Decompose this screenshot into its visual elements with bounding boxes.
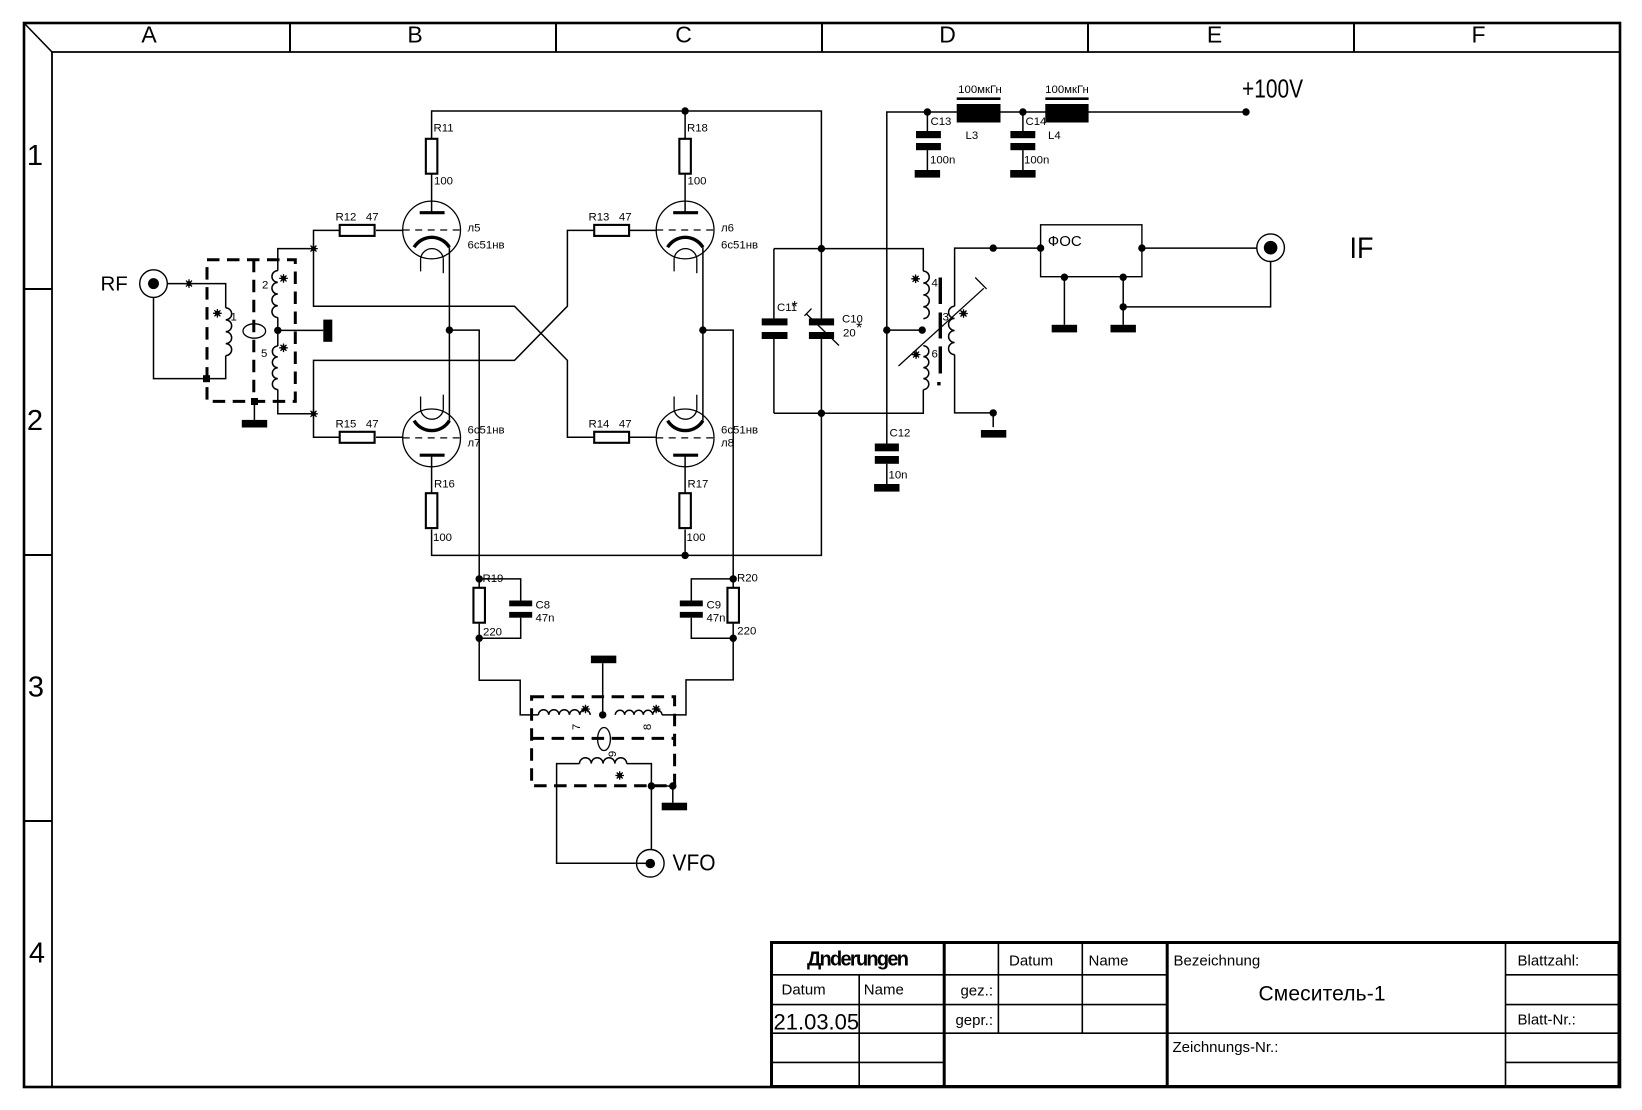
svg-text:100n: 100n (1024, 155, 1049, 167)
svg-text:Datum: Datum (1009, 953, 1053, 970)
svg-text:2: 2 (27, 405, 43, 437)
svg-text:Name: Name (864, 982, 904, 999)
svg-text:100мкГн: 100мкГн (1045, 84, 1089, 96)
svg-text:VFO: VFO (673, 849, 716, 875)
svg-text:RF: RF (101, 273, 128, 296)
svg-text:D: D (939, 22, 956, 48)
svg-text:C9: C9 (707, 600, 722, 612)
svg-text:л6: л6 (721, 223, 734, 235)
svg-text:C12: C12 (890, 428, 911, 440)
svg-text:R18: R18 (687, 123, 708, 135)
svg-text:100мкГн: 100мкГн (958, 84, 1002, 96)
svg-text:2: 2 (262, 280, 268, 292)
svg-text:100: 100 (433, 532, 452, 544)
svg-text:L4: L4 (1048, 130, 1061, 142)
svg-text:100n: 100n (930, 155, 955, 167)
svg-text:6с51нв: 6с51нв (721, 239, 758, 251)
svg-text:6с51нв: 6с51нв (721, 425, 758, 437)
svg-text:E: E (1207, 22, 1222, 48)
svg-text:gez.:: gez.: (960, 983, 993, 1000)
svg-text:Bezeichnung: Bezeichnung (1174, 953, 1261, 970)
svg-text:6: 6 (932, 349, 938, 361)
svg-text:47n: 47n (536, 612, 555, 624)
svg-text:л5: л5 (468, 223, 481, 235)
svg-text:R12 47: R12 47 (336, 212, 379, 224)
svg-text:R20: R20 (737, 573, 758, 585)
svg-text:Blatt-Nr.:: Blatt-Nr.: (1518, 1012, 1576, 1029)
svg-text:100: 100 (687, 532, 706, 544)
svg-text:4: 4 (29, 938, 45, 970)
svg-text:R17: R17 (688, 478, 709, 490)
svg-text:220: 220 (483, 627, 502, 639)
svg-text:Name: Name (1089, 953, 1129, 970)
svg-text:8: 8 (642, 724, 654, 730)
svg-text:1: 1 (27, 140, 43, 172)
svg-text:F: F (1471, 22, 1485, 48)
svg-text:+100V: +100V (1242, 73, 1304, 103)
svg-text:6с51нв: 6с51нв (468, 425, 505, 437)
svg-text:л8: л8 (721, 437, 734, 449)
svg-text:C13: C13 (931, 116, 952, 128)
svg-text:Zeichnungs-Nr.:: Zeichnungs-Nr.: (1173, 1039, 1279, 1056)
svg-text:Смеситель-1: Смеситель-1 (1259, 983, 1386, 1006)
svg-text:A: A (141, 22, 157, 48)
svg-text:*: * (856, 320, 862, 337)
svg-text:*: * (792, 299, 798, 316)
svg-text:Datum: Datum (782, 982, 826, 999)
svg-text:20: 20 (843, 327, 856, 339)
svg-text:R14 47: R14 47 (589, 419, 632, 431)
svg-text:6с51нв: 6с51нв (468, 239, 505, 251)
svg-text:C14: C14 (1026, 116, 1047, 128)
svg-text:gepr.:: gepr.: (955, 1012, 993, 1029)
svg-text:Дnderungen: Дnderungen (807, 949, 909, 971)
svg-text:C: C (675, 22, 692, 48)
svg-text:47n: 47n (707, 612, 726, 624)
svg-text:3: 3 (943, 312, 949, 324)
svg-text:10n: 10n (889, 470, 908, 482)
svg-text:5: 5 (261, 348, 267, 360)
svg-text:21.03.05: 21.03.05 (774, 1010, 860, 1035)
svg-text:3: 3 (28, 672, 44, 704)
svg-text:C8: C8 (536, 600, 551, 612)
svg-text:R19: R19 (483, 573, 504, 585)
svg-text:R11: R11 (434, 123, 454, 135)
svg-text:л7: л7 (468, 437, 481, 449)
svg-text:L3: L3 (966, 130, 979, 142)
svg-text:Blattzahl:: Blattzahl: (1518, 953, 1580, 970)
svg-text:220: 220 (737, 626, 756, 638)
svg-text:100: 100 (434, 176, 453, 188)
svg-text:1: 1 (231, 312, 237, 324)
svg-text:100: 100 (688, 176, 707, 188)
svg-text:IF: IF (1350, 232, 1374, 265)
svg-text:ФОС: ФОС (1048, 233, 1082, 250)
svg-text:R16: R16 (434, 478, 455, 490)
svg-text:R15 47: R15 47 (336, 419, 379, 431)
svg-text:7: 7 (571, 724, 583, 730)
svg-text:9: 9 (607, 751, 619, 757)
svg-text:R13 47: R13 47 (589, 212, 632, 224)
svg-text:B: B (407, 22, 422, 48)
svg-text:4: 4 (932, 278, 938, 290)
